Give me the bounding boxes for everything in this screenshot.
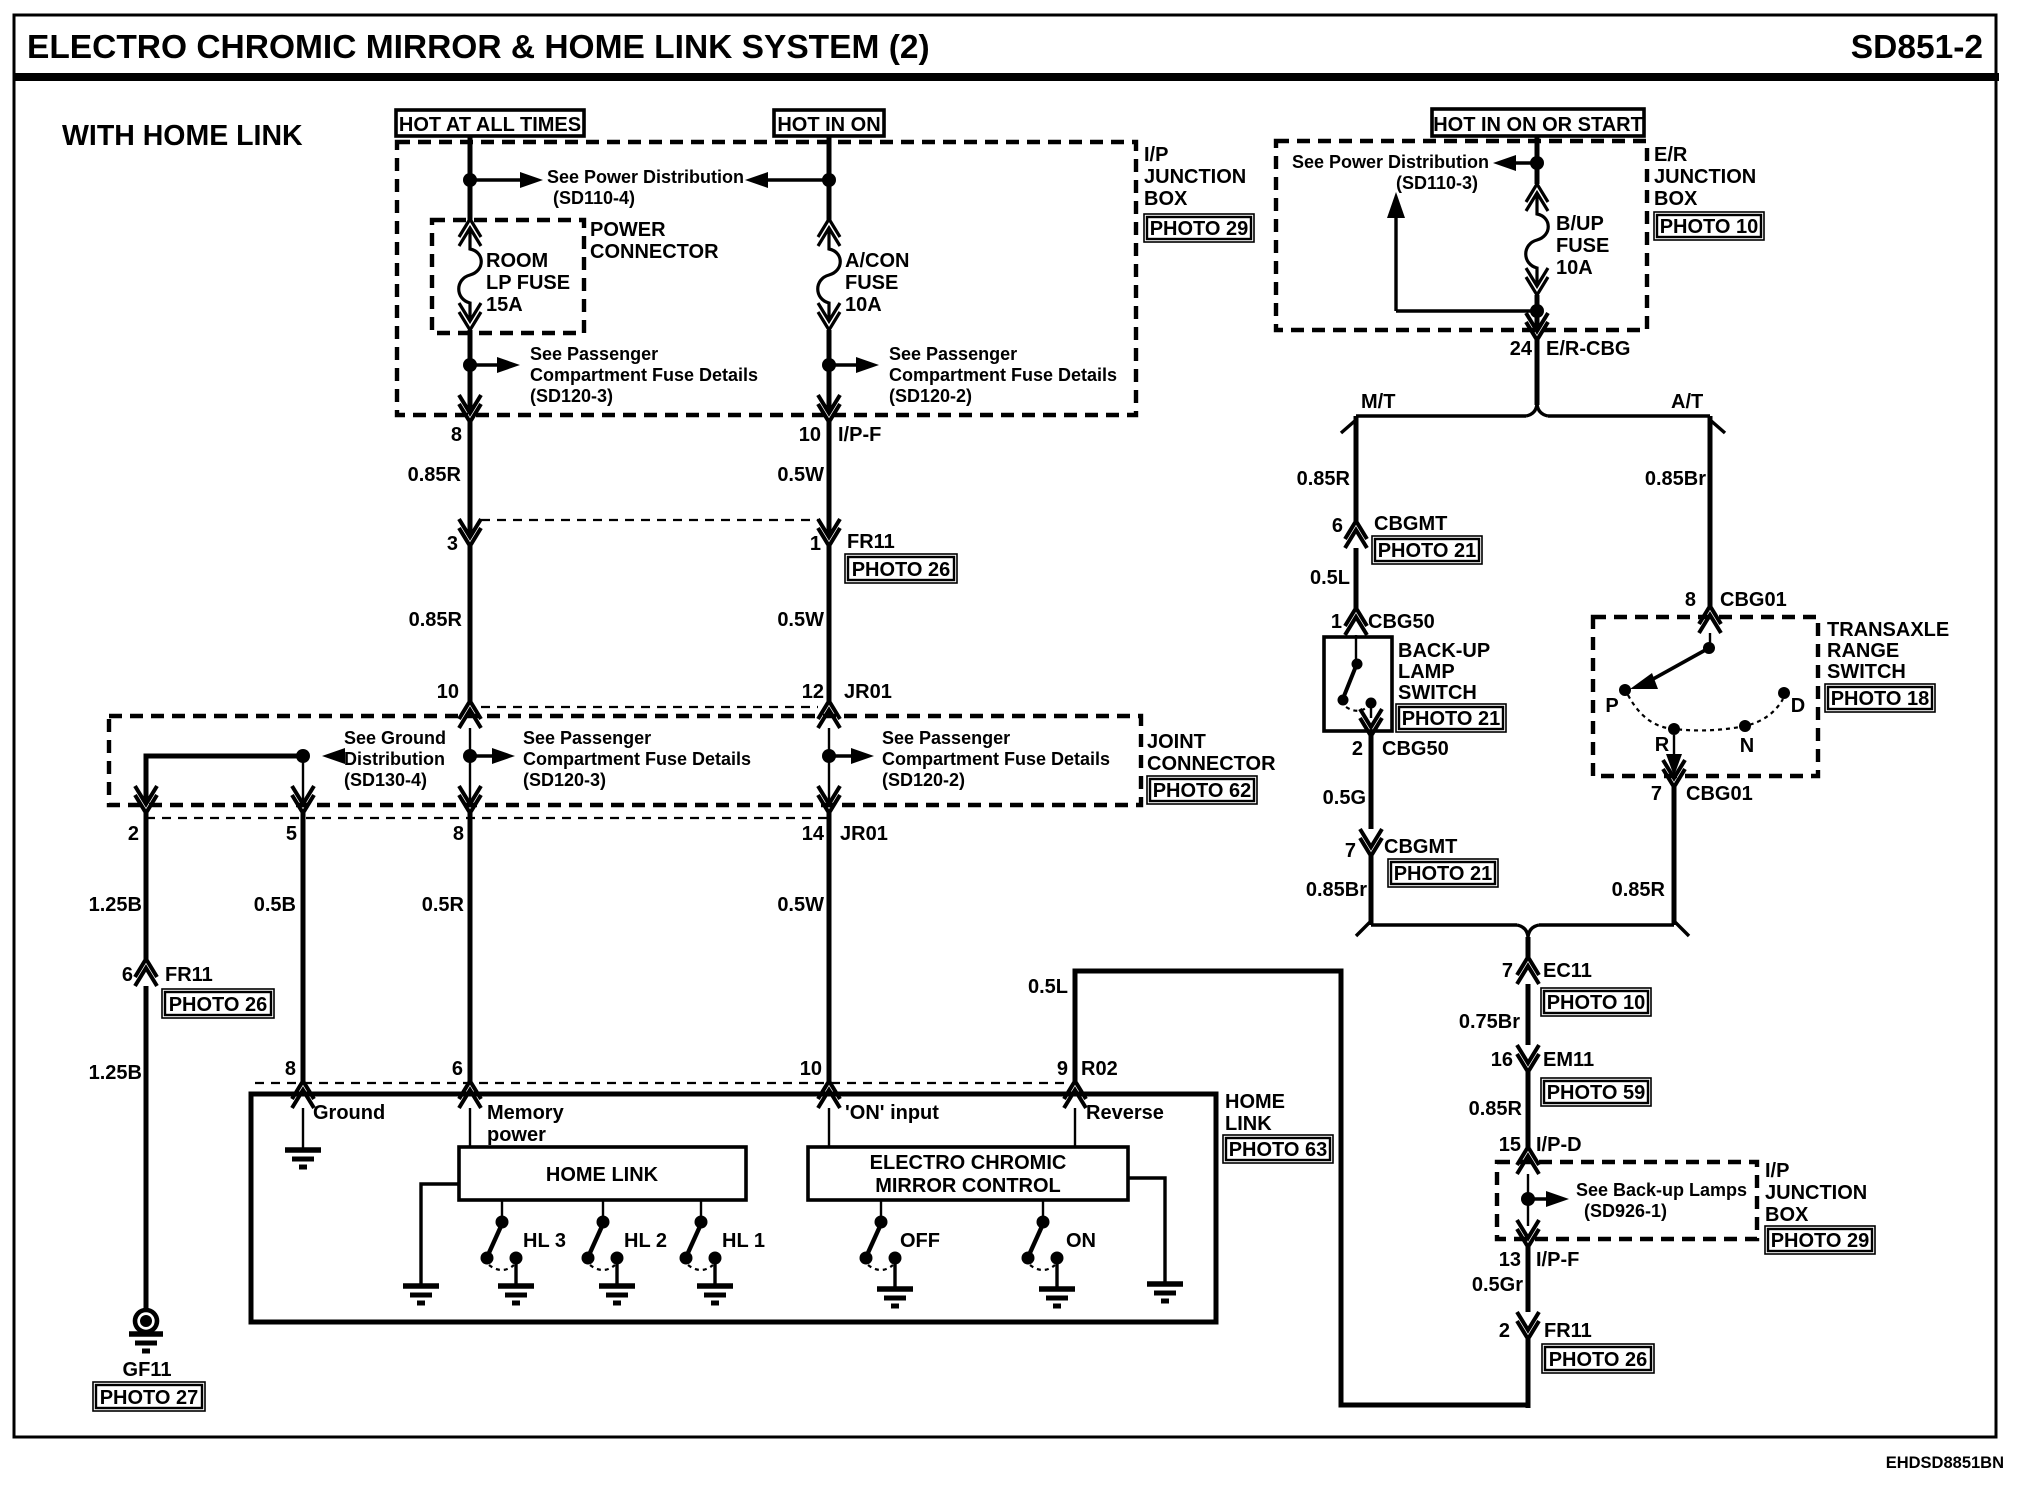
photo ref PHOTO 27	[93, 1382, 205, 1411]
label E/R JUNCTION BOX	[1654, 144, 1756, 210]
svg-text:0.75Br: 0.75Br	[1459, 1011, 1520, 1033]
wire 0.85R	[468, 422, 473, 537]
home link module box	[459, 1147, 746, 1200]
label JOINT CONNECTOR	[1147, 731, 1276, 775]
ground GF11	[129, 1310, 163, 1351]
wire: HOT IN ON OR START feed	[1535, 136, 1540, 184]
svg-text:12: 12	[802, 681, 824, 703]
svg-text:See Passenger: See Passenger	[882, 728, 1010, 748]
svg-text:PHOTO 21: PHOTO 21	[1378, 540, 1477, 562]
svg-text:10A: 10A	[845, 294, 882, 316]
svg-text:Distribution: Distribution	[344, 749, 445, 769]
ground	[403, 1286, 439, 1303]
wire 0.85Br	[1369, 856, 1374, 925]
svg-text:ELECTRO CHROMIC: ELECTRO CHROMIC	[870, 1152, 1067, 1174]
pin label 8 CBG01	[1685, 589, 1787, 611]
wire: HOT AT ALL TIMES feed	[468, 136, 473, 222]
svg-text:1.25B: 1.25B	[89, 894, 142, 916]
svg-text:See Back-up Lamps: See Back-up Lamps	[1576, 1180, 1747, 1200]
switch HL3	[481, 1200, 522, 1286]
svg-text:PHOTO 21: PHOTO 21	[1402, 708, 1501, 730]
svg-text:EM11: EM11	[1543, 1049, 1594, 1071]
svg-text:R: R	[1655, 734, 1670, 756]
svg-text:0.85R: 0.85R	[408, 464, 462, 486]
wire 0.75Br	[1526, 984, 1531, 1045]
arrow: see power distribution (left)	[745, 172, 829, 188]
wire module to ground loop	[421, 1184, 459, 1286]
label I/P JUNCTION BOX	[1144, 144, 1246, 210]
svg-text:LINK: LINK	[1225, 1113, 1272, 1135]
svg-text:POWER: POWER	[590, 219, 666, 241]
svg-text:See Passenger: See Passenger	[523, 728, 651, 748]
photo ref PHOTO 63	[1223, 1135, 1333, 1163]
label Memory power	[487, 1102, 565, 1146]
switch HL2	[582, 1200, 623, 1286]
svg-text:CBG50: CBG50	[1368, 611, 1435, 633]
wire to bottom return	[1526, 1339, 1531, 1408]
svg-text:8: 8	[1685, 589, 1696, 611]
svg-text:Compartment Fuse Details: Compartment Fuse Details	[882, 749, 1110, 769]
wire ground bus in joint connector	[146, 756, 303, 804]
wire 0.5Gr	[1526, 1247, 1531, 1312]
svg-text:OFF: OFF	[900, 1230, 940, 1252]
svg-text:1: 1	[810, 533, 821, 555]
wire stub	[1527, 1174, 1529, 1226]
wire ON input pin	[828, 1108, 830, 1148]
back-up lamp switch box	[1324, 637, 1392, 731]
svg-text:BOX: BOX	[1654, 188, 1698, 210]
connector 15 I/P-D (up)	[1517, 1147, 1539, 1174]
connector 6 memory power (up)	[459, 1081, 481, 1108]
junction node	[822, 358, 836, 372]
svg-text:1.25B: 1.25B	[89, 1062, 142, 1084]
label POWER CONNECTOR	[590, 219, 719, 263]
wire 0.85R	[468, 546, 473, 701]
pin label 13 I/P-F	[1499, 1249, 1580, 1271]
svg-text:A/CON: A/CON	[845, 250, 909, 272]
transaxle range switch box	[1593, 617, 1818, 776]
svg-text:0.85R: 0.85R	[1612, 879, 1666, 901]
ground	[877, 1289, 913, 1306]
svg-text:3: 3	[447, 533, 458, 555]
photo ref PHOTO 26	[162, 989, 274, 1018]
svg-text:BACK-UP: BACK-UP	[1398, 640, 1490, 662]
junction node	[822, 749, 836, 763]
svg-text:0.5Gr: 0.5Gr	[1472, 1274, 1523, 1296]
fuse ROOM LP FUSE 15A	[459, 219, 482, 330]
svg-text:0.5W: 0.5W	[777, 894, 824, 916]
svg-text:0.85Br: 0.85Br	[1306, 879, 1367, 901]
photo ref PHOTO 62	[1147, 776, 1257, 804]
pin label 1 FR11	[810, 531, 895, 555]
svg-text:PHOTO 10: PHOTO 10	[1547, 992, 1646, 1014]
connector 7 EC11 (up)	[1517, 957, 1539, 984]
arrow: see ground distribution	[322, 748, 345, 764]
svg-text:CBG01: CBG01	[1720, 589, 1787, 611]
connector 13 I/P-F	[1517, 1220, 1539, 1247]
pin label 14 JR01	[802, 823, 888, 845]
svg-text:PHOTO 26: PHOTO 26	[169, 994, 268, 1016]
ground	[1039, 1289, 1075, 1306]
svg-text:HOT IN ON OR START: HOT IN ON OR START	[1433, 114, 1643, 136]
pin label 12 JR01	[802, 681, 892, 703]
pin label 9 R02	[1057, 1058, 1118, 1080]
svg-text:HOME: HOME	[1225, 1091, 1285, 1113]
svg-text:2: 2	[1352, 738, 1363, 760]
svg-text:WITH HOME LINK: WITH HOME LINK	[62, 120, 303, 152]
svg-text:PHOTO 26: PHOTO 26	[1549, 1349, 1648, 1371]
svg-text:2: 2	[128, 823, 139, 845]
svg-text:HOME LINK: HOME LINK	[546, 1164, 659, 1186]
label See Power Distribution (SD110-3)	[1292, 152, 1489, 193]
svg-text:(SD120-2): (SD120-2)	[882, 770, 965, 790]
joint connector box	[109, 716, 1141, 805]
contact N	[1739, 720, 1751, 732]
switch output wire	[1370, 703, 1372, 718]
connector 3 (FR11)	[459, 519, 481, 546]
wire into transaxle switch	[1709, 633, 1711, 645]
junction node	[1521, 1192, 1535, 1206]
svg-text:See Power Distribution: See Power Distribution	[547, 167, 744, 187]
junction node	[463, 173, 477, 187]
svg-text:CBGMT: CBGMT	[1374, 513, 1447, 535]
svg-text:CBG01: CBG01	[1686, 783, 1753, 805]
svg-text:24: 24	[1510, 338, 1533, 360]
svg-text:0.5W: 0.5W	[777, 609, 824, 631]
svg-text:9: 9	[1057, 1058, 1068, 1080]
svg-text:FR11: FR11	[847, 531, 895, 553]
pin label 24 E/R-CBG	[1510, 338, 1631, 360]
svg-text:8: 8	[451, 424, 462, 446]
svg-text:PHOTO 26: PHOTO 26	[852, 559, 951, 581]
connector 7 CBG01	[1663, 760, 1685, 787]
label See Passenger Compartment Fuse Details (SD120-2)	[882, 728, 1110, 790]
connector line (dashed)	[255, 1082, 1064, 1084]
svg-text:EHDSD8851BN: EHDSD8851BN	[1886, 1454, 2004, 1472]
svg-text:15: 15	[1499, 1134, 1521, 1156]
wire stub	[828, 728, 830, 804]
arrow: see back-up lamps	[1528, 1191, 1569, 1207]
arrow: see passenger fuse details	[470, 357, 520, 373]
photo ref PHOTO 10	[1541, 988, 1651, 1016]
svg-text:(SD110-4): (SD110-4)	[553, 188, 635, 208]
svg-text:A/T: A/T	[1671, 391, 1703, 413]
photo ref PHOTO 29	[1144, 214, 1254, 242]
svg-text:PHOTO 63: PHOTO 63	[1229, 1139, 1328, 1161]
connector line (dashed)	[146, 817, 829, 819]
wire 0.85R	[1672, 787, 1677, 925]
svg-text:SWITCH: SWITCH	[1827, 661, 1906, 683]
wire 0.5W	[827, 546, 832, 701]
label HOME LINK (unit)	[1225, 1091, 1285, 1135]
ground	[1147, 1284, 1183, 1301]
wire reverse pin	[1074, 1108, 1076, 1148]
svg-text:0.5B: 0.5B	[254, 894, 296, 916]
label TRANSAXLE RANGE SWITCH	[1827, 619, 1949, 683]
svg-text:SWITCH: SWITCH	[1398, 682, 1477, 704]
label See Passenger Compartment Fuse Details (SD120-3)	[523, 728, 751, 790]
junction node	[463, 358, 477, 372]
svg-text:5: 5	[286, 823, 297, 845]
label See Power Distribution (SD110-4)	[547, 167, 744, 208]
connector 16 EM11	[1517, 1045, 1539, 1072]
svg-text:EC11: EC11	[1543, 960, 1592, 982]
arrow: see power distribution (right)	[470, 172, 543, 188]
svg-text:PHOTO 29: PHOTO 29	[1771, 1230, 1870, 1252]
wire 0.5B	[301, 813, 306, 1081]
svg-text:TRANSAXLE: TRANSAXLE	[1827, 619, 1949, 641]
connector 10 ON input (up)	[818, 1081, 840, 1108]
wire 0.85R	[1526, 1072, 1531, 1147]
svg-text:ELECTRO CHROMIC MIRROR & HOME: ELECTRO CHROMIC MIRROR & HOME LINK SYSTE…	[27, 29, 930, 66]
fuse B/UP FUSE 10A	[1526, 184, 1549, 295]
connector 5	[292, 786, 314, 813]
ground	[498, 1286, 534, 1303]
svg-text:7: 7	[1651, 783, 1662, 805]
svg-text:B/UP: B/UP	[1556, 213, 1604, 235]
svg-text:E/R-CBG: E/R-CBG	[1546, 338, 1630, 360]
E/R junction box	[1276, 141, 1647, 330]
svg-text:I/P: I/P	[1765, 1160, 1789, 1182]
label BACK-UP LAMP SWITCH	[1398, 640, 1490, 704]
svg-text:0.5W: 0.5W	[777, 464, 824, 486]
svg-text:1: 1	[1331, 611, 1342, 633]
svg-text:7: 7	[1345, 840, 1356, 862]
svg-text:6: 6	[452, 1058, 463, 1080]
connector pin 10 I/P-F	[818, 395, 840, 422]
label HOT IN ON OR START	[1432, 109, 1644, 136]
wire 0.5W	[827, 422, 832, 537]
svg-text:14: 14	[802, 823, 825, 845]
label See Passenger Compartment Fuse Details (SD120-2)	[889, 344, 1117, 406]
svg-text:PHOTO 62: PHOTO 62	[1153, 780, 1252, 802]
wire A/T 0.85Br	[1708, 416, 1713, 606]
connector 6 FR11 (up)	[135, 959, 157, 986]
svg-text:2: 2	[1499, 1320, 1510, 1342]
svg-text:10: 10	[799, 424, 821, 446]
label See Back-up Lamps (SD926-1)	[1576, 1180, 1747, 1221]
svg-text:PHOTO 10: PHOTO 10	[1660, 216, 1759, 238]
connector 24 E/R-CBG	[1526, 313, 1548, 340]
ground	[599, 1286, 635, 1303]
wire into switch	[1355, 635, 1357, 660]
svg-text:0.85Br: 0.85Br	[1645, 468, 1706, 490]
svg-text:CONNECTOR: CONNECTOR	[590, 241, 719, 263]
pin label 7 EC11	[1502, 960, 1592, 982]
wire mirror control to ground	[1128, 1178, 1165, 1284]
svg-text:JUNCTION: JUNCTION	[1144, 166, 1246, 188]
junction node	[296, 749, 310, 763]
pin label 15 I/P-D	[1499, 1134, 1582, 1156]
svg-text:Ground: Ground	[313, 1102, 385, 1124]
wire	[1535, 295, 1540, 331]
wire	[827, 330, 832, 413]
svg-text:CBG50: CBG50	[1382, 738, 1449, 760]
svg-text:Reverse: Reverse	[1086, 1102, 1164, 1124]
connector 2 FR11	[1517, 1312, 1539, 1339]
svg-text:15A: 15A	[486, 294, 523, 316]
svg-text:10: 10	[437, 681, 459, 703]
svg-text:Compartment Fuse Details: Compartment Fuse Details	[889, 365, 1117, 385]
contact R	[1668, 723, 1680, 735]
ground	[285, 1150, 321, 1167]
junction node	[1530, 156, 1544, 170]
svg-text:HL 2: HL 2	[624, 1230, 667, 1252]
svg-text:(SD120-3): (SD120-3)	[523, 770, 606, 790]
connector 10 (JR01 up)	[459, 701, 481, 728]
contact P	[1619, 684, 1631, 696]
back-up lamp switch contacts	[1338, 659, 1377, 711]
arrow: see passenger fuse details	[829, 357, 879, 373]
svg-text:ROOM: ROOM	[486, 250, 548, 272]
wire reverse signal loop 0.5L	[1075, 971, 1528, 1405]
photo ref PHOTO 26	[1542, 1344, 1654, 1373]
wire stub	[469, 728, 471, 804]
svg-text:10A: 10A	[1556, 257, 1593, 279]
connector 14 JR01	[818, 786, 840, 813]
photo ref PHOTO 10	[1654, 212, 1764, 240]
connector 6 CBGMT (up)	[1345, 521, 1367, 548]
svg-text:PHOTO 29: PHOTO 29	[1150, 218, 1249, 240]
label See Ground Distribution (SD130-4)	[344, 728, 446, 790]
svg-text:P: P	[1605, 695, 1618, 717]
svg-text:M/T: M/T	[1361, 391, 1395, 413]
wire stub	[302, 756, 304, 804]
svg-text:6: 6	[122, 964, 133, 986]
connector 2	[135, 786, 157, 813]
I/P junction box (bottom)	[1497, 1162, 1757, 1239]
junction node	[822, 173, 836, 187]
svg-text:HL 3: HL 3	[523, 1230, 566, 1252]
svg-text:See Power Distribution: See Power Distribution	[1292, 152, 1489, 172]
svg-text:(SD130-4): (SD130-4)	[344, 770, 427, 790]
svg-text:0.5G: 0.5G	[1323, 787, 1366, 809]
svg-text:I/P: I/P	[1144, 144, 1168, 166]
svg-text:LP FUSE: LP FUSE	[486, 272, 570, 294]
pin label 16 EM11	[1491, 1049, 1594, 1071]
svg-text:8: 8	[453, 823, 464, 845]
connector line (dashed)	[481, 519, 818, 521]
svg-text:HOT IN ON: HOT IN ON	[777, 114, 880, 136]
wire to M/T A/T branch	[1535, 340, 1540, 405]
svg-text:16: 16	[1491, 1049, 1513, 1071]
transaxle selector common	[1703, 642, 1715, 654]
svg-text:Compartment Fuse Details: Compartment Fuse Details	[530, 365, 758, 385]
photo ref PHOTO 26	[845, 554, 957, 583]
svg-text:LAMP: LAMP	[1398, 661, 1455, 683]
wire 1.25B	[144, 986, 149, 1310]
svg-text:13: 13	[1499, 1249, 1521, 1271]
svg-text:PHOTO 59: PHOTO 59	[1547, 1082, 1646, 1104]
svg-text:JR01: JR01	[844, 681, 892, 703]
wire to ground	[302, 1108, 304, 1148]
photo ref PHOTO 59	[1541, 1078, 1651, 1106]
photo ref PHOTO 21	[1372, 536, 1482, 564]
svg-text:FR11: FR11	[165, 964, 213, 986]
svg-text:'ON' input: 'ON' input	[845, 1102, 939, 1124]
junction node	[1530, 304, 1544, 318]
connector 8 CBG01 (up)	[1699, 606, 1721, 633]
switch output arrow	[1666, 735, 1682, 776]
label I/P JUNCTION BOX	[1765, 1160, 1867, 1226]
svg-text:GF11: GF11	[123, 1359, 172, 1381]
arrow: see power distribution (left)	[1493, 155, 1537, 171]
wire M/T 0.85R	[1354, 416, 1359, 521]
svg-text:0.5L: 0.5L	[1310, 567, 1350, 589]
photo ref PHOTO 21	[1388, 859, 1498, 887]
fuse A/CON FUSE 10A	[818, 219, 841, 330]
svg-text:SD851-2: SD851-2	[1851, 29, 1983, 66]
svg-text:power: power	[487, 1124, 546, 1146]
switch HL1	[680, 1200, 721, 1286]
connector 1 CBG50 (up)	[1345, 608, 1367, 635]
svg-text:(SD926-1): (SD926-1)	[1584, 1201, 1667, 1221]
svg-text:RANGE: RANGE	[1827, 640, 1899, 662]
svg-text:HOT AT ALL TIMES: HOT AT ALL TIMES	[399, 114, 581, 136]
svg-text:See Passenger: See Passenger	[889, 344, 1017, 364]
connector 2 CBG50	[1360, 709, 1382, 736]
pin label 2 CBG50	[1352, 738, 1449, 760]
label HOT IN ON	[774, 110, 884, 136]
svg-text:0.5L: 0.5L	[1028, 976, 1068, 998]
svg-text:PHOTO 18: PHOTO 18	[1831, 688, 1930, 710]
svg-text:0.85R: 0.85R	[1297, 468, 1351, 490]
wire: HOT IN ON feed	[827, 136, 832, 222]
svg-text:0.5R: 0.5R	[422, 894, 465, 916]
power connector box	[432, 220, 584, 333]
ground	[697, 1286, 733, 1303]
I/P junction box (top)	[397, 142, 1136, 415]
svg-text:I/P-F: I/P-F	[838, 424, 881, 446]
pin label 2 FR11	[1499, 1320, 1592, 1342]
svg-text:(SD110-3): (SD110-3)	[1396, 173, 1478, 193]
svg-text:BOX: BOX	[1144, 188, 1188, 210]
svg-text:D: D	[1791, 695, 1805, 717]
connector 12 JR01 (up)	[818, 701, 840, 728]
svg-text:ON: ON	[1066, 1230, 1096, 1252]
pin label 1 CBG50	[1331, 611, 1435, 633]
wire	[468, 330, 473, 413]
switch ON	[1022, 1200, 1063, 1289]
contact D	[1778, 687, 1790, 699]
branch brace M/T / A/T	[1341, 404, 1725, 433]
photo ref PHOTO 21	[1396, 704, 1506, 732]
selector blade with arrow	[1630, 648, 1709, 689]
label A/CON FUSE 10A	[845, 250, 909, 316]
svg-text:I/P-F: I/P-F	[1536, 1249, 1579, 1271]
svg-text:FUSE: FUSE	[845, 272, 898, 294]
connector 7 CBGMT	[1360, 829, 1382, 856]
svg-text:See Ground: See Ground	[344, 728, 446, 748]
label B/UP FUSE 10A	[1556, 213, 1609, 279]
pin label 6 CBGMT	[1332, 513, 1447, 537]
svg-text:JUNCTION: JUNCTION	[1654, 166, 1756, 188]
wire 0.5R	[468, 813, 473, 1081]
arrow: see passenger fuse details	[829, 748, 874, 764]
label HOT AT ALL TIMES	[396, 110, 584, 136]
connector line (dashed)	[481, 706, 818, 708]
svg-text:I/P-D: I/P-D	[1536, 1134, 1582, 1156]
switch OFF	[860, 1200, 901, 1289]
svg-text:(SD120-2): (SD120-2)	[889, 386, 972, 406]
connector pin 8 (I/P-F)	[459, 395, 481, 422]
svg-text:JR01: JR01	[840, 823, 888, 845]
svg-text:0.85R: 0.85R	[1469, 1098, 1523, 1120]
connector 1 FR11	[818, 519, 840, 546]
selector arc	[1628, 695, 1783, 730]
pin label 7 CBGMT	[1345, 836, 1457, 862]
wire 0.5L	[1354, 548, 1359, 608]
